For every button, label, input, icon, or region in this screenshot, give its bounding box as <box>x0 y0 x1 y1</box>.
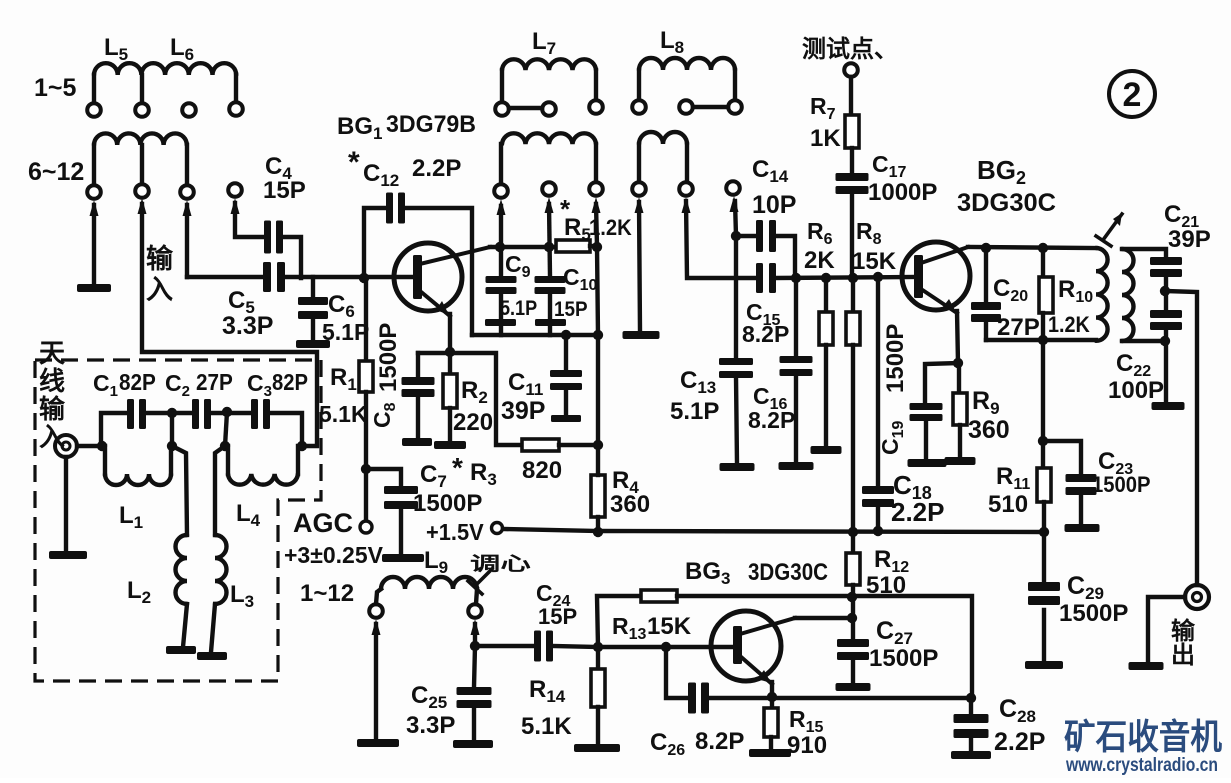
svg-text:1500P: 1500P <box>1059 600 1128 627</box>
svg-text:15K: 15K <box>852 248 897 275</box>
svg-text:1500P: 1500P <box>413 490 482 517</box>
svg-text:2.2P: 2.2P <box>891 497 945 527</box>
svg-text:5.1P: 5.1P <box>500 297 537 321</box>
svg-text:1.2K: 1.2K <box>1048 313 1090 337</box>
svg-text:2.2P: 2.2P <box>412 155 461 182</box>
svg-text:出: 出 <box>1171 642 1195 669</box>
svg-text:82P: 82P <box>119 369 156 395</box>
svg-text:入: 入 <box>146 275 173 305</box>
svg-text:82P: 82P <box>272 369 308 396</box>
svg-text:1~5: 1~5 <box>34 74 77 102</box>
svg-text:1500P: 1500P <box>869 645 938 672</box>
svg-text:39P: 39P <box>501 397 545 425</box>
svg-text:820: 820 <box>522 457 562 484</box>
svg-text:3.3P: 3.3P <box>406 712 455 739</box>
svg-text:15K: 15K <box>647 613 692 640</box>
svg-text:5.1K: 5.1K <box>521 713 572 740</box>
svg-text:输: 输 <box>39 394 66 424</box>
svg-text:+1.5V: +1.5V <box>426 519 484 545</box>
svg-text:360: 360 <box>610 491 650 518</box>
svg-text:3.3P: 3.3P <box>222 312 273 340</box>
svg-text:5.1P: 5.1P <box>322 319 369 345</box>
svg-text:1~12: 1~12 <box>300 580 354 607</box>
svg-text:100P: 100P <box>1108 377 1164 404</box>
svg-text:5.1P: 5.1P <box>670 398 719 425</box>
svg-text:910: 910 <box>787 732 827 759</box>
svg-text:27P: 27P <box>196 369 233 395</box>
svg-text:510: 510 <box>988 491 1028 518</box>
svg-text:39P: 39P <box>1168 226 1211 253</box>
svg-text:15P: 15P <box>263 177 306 204</box>
svg-text:8.2P: 8.2P <box>695 728 744 755</box>
svg-text:矿石收音机: 矿石收音机 <box>1064 717 1222 757</box>
svg-text:10P: 10P <box>752 191 796 219</box>
svg-text:3DG30C: 3DG30C <box>748 559 828 586</box>
svg-text:15P: 15P <box>538 604 577 629</box>
svg-text:1500P: 1500P <box>882 324 909 393</box>
svg-text:输: 输 <box>146 243 174 274</box>
svg-text:6~12: 6~12 <box>28 158 84 186</box>
svg-text:15P: 15P <box>554 298 588 321</box>
svg-text:510: 510 <box>866 572 906 599</box>
svg-text:www.crystalradio.cn: www.crystalradio.cn <box>1065 755 1218 776</box>
svg-text:8.2P: 8.2P <box>748 407 795 433</box>
svg-text:220: 220 <box>453 409 493 436</box>
svg-text:5.1K: 5.1K <box>319 401 368 427</box>
svg-text:AGC: AGC <box>293 508 353 538</box>
svg-text:2: 2 <box>1123 76 1142 114</box>
svg-text:27P: 27P <box>997 314 1040 341</box>
svg-text:调心: 调心 <box>470 554 531 575</box>
svg-text:1500P: 1500P <box>1092 473 1150 497</box>
svg-text:*: * <box>348 146 360 179</box>
svg-text:2.2P: 2.2P <box>994 728 1045 756</box>
svg-text:天: 天 <box>39 338 65 368</box>
svg-text:输: 输 <box>1171 617 1196 645</box>
svg-text:1000P: 1000P <box>868 179 937 206</box>
svg-text:360: 360 <box>968 416 1010 444</box>
svg-text:+3±0.25V: +3±0.25V <box>284 542 384 568</box>
svg-text:8.2P: 8.2P <box>742 321 789 347</box>
svg-text:3DG30C: 3DG30C <box>957 189 1056 217</box>
svg-text:2K: 2K <box>804 247 835 274</box>
svg-text:1K: 1K <box>810 125 841 152</box>
svg-text:线: 线 <box>39 366 65 396</box>
svg-text:测试点、: 测试点、 <box>802 36 898 63</box>
svg-text:1500P: 1500P <box>375 323 402 392</box>
svg-text:3DG79B: 3DG79B <box>386 111 476 138</box>
svg-text:*: * <box>452 452 463 483</box>
